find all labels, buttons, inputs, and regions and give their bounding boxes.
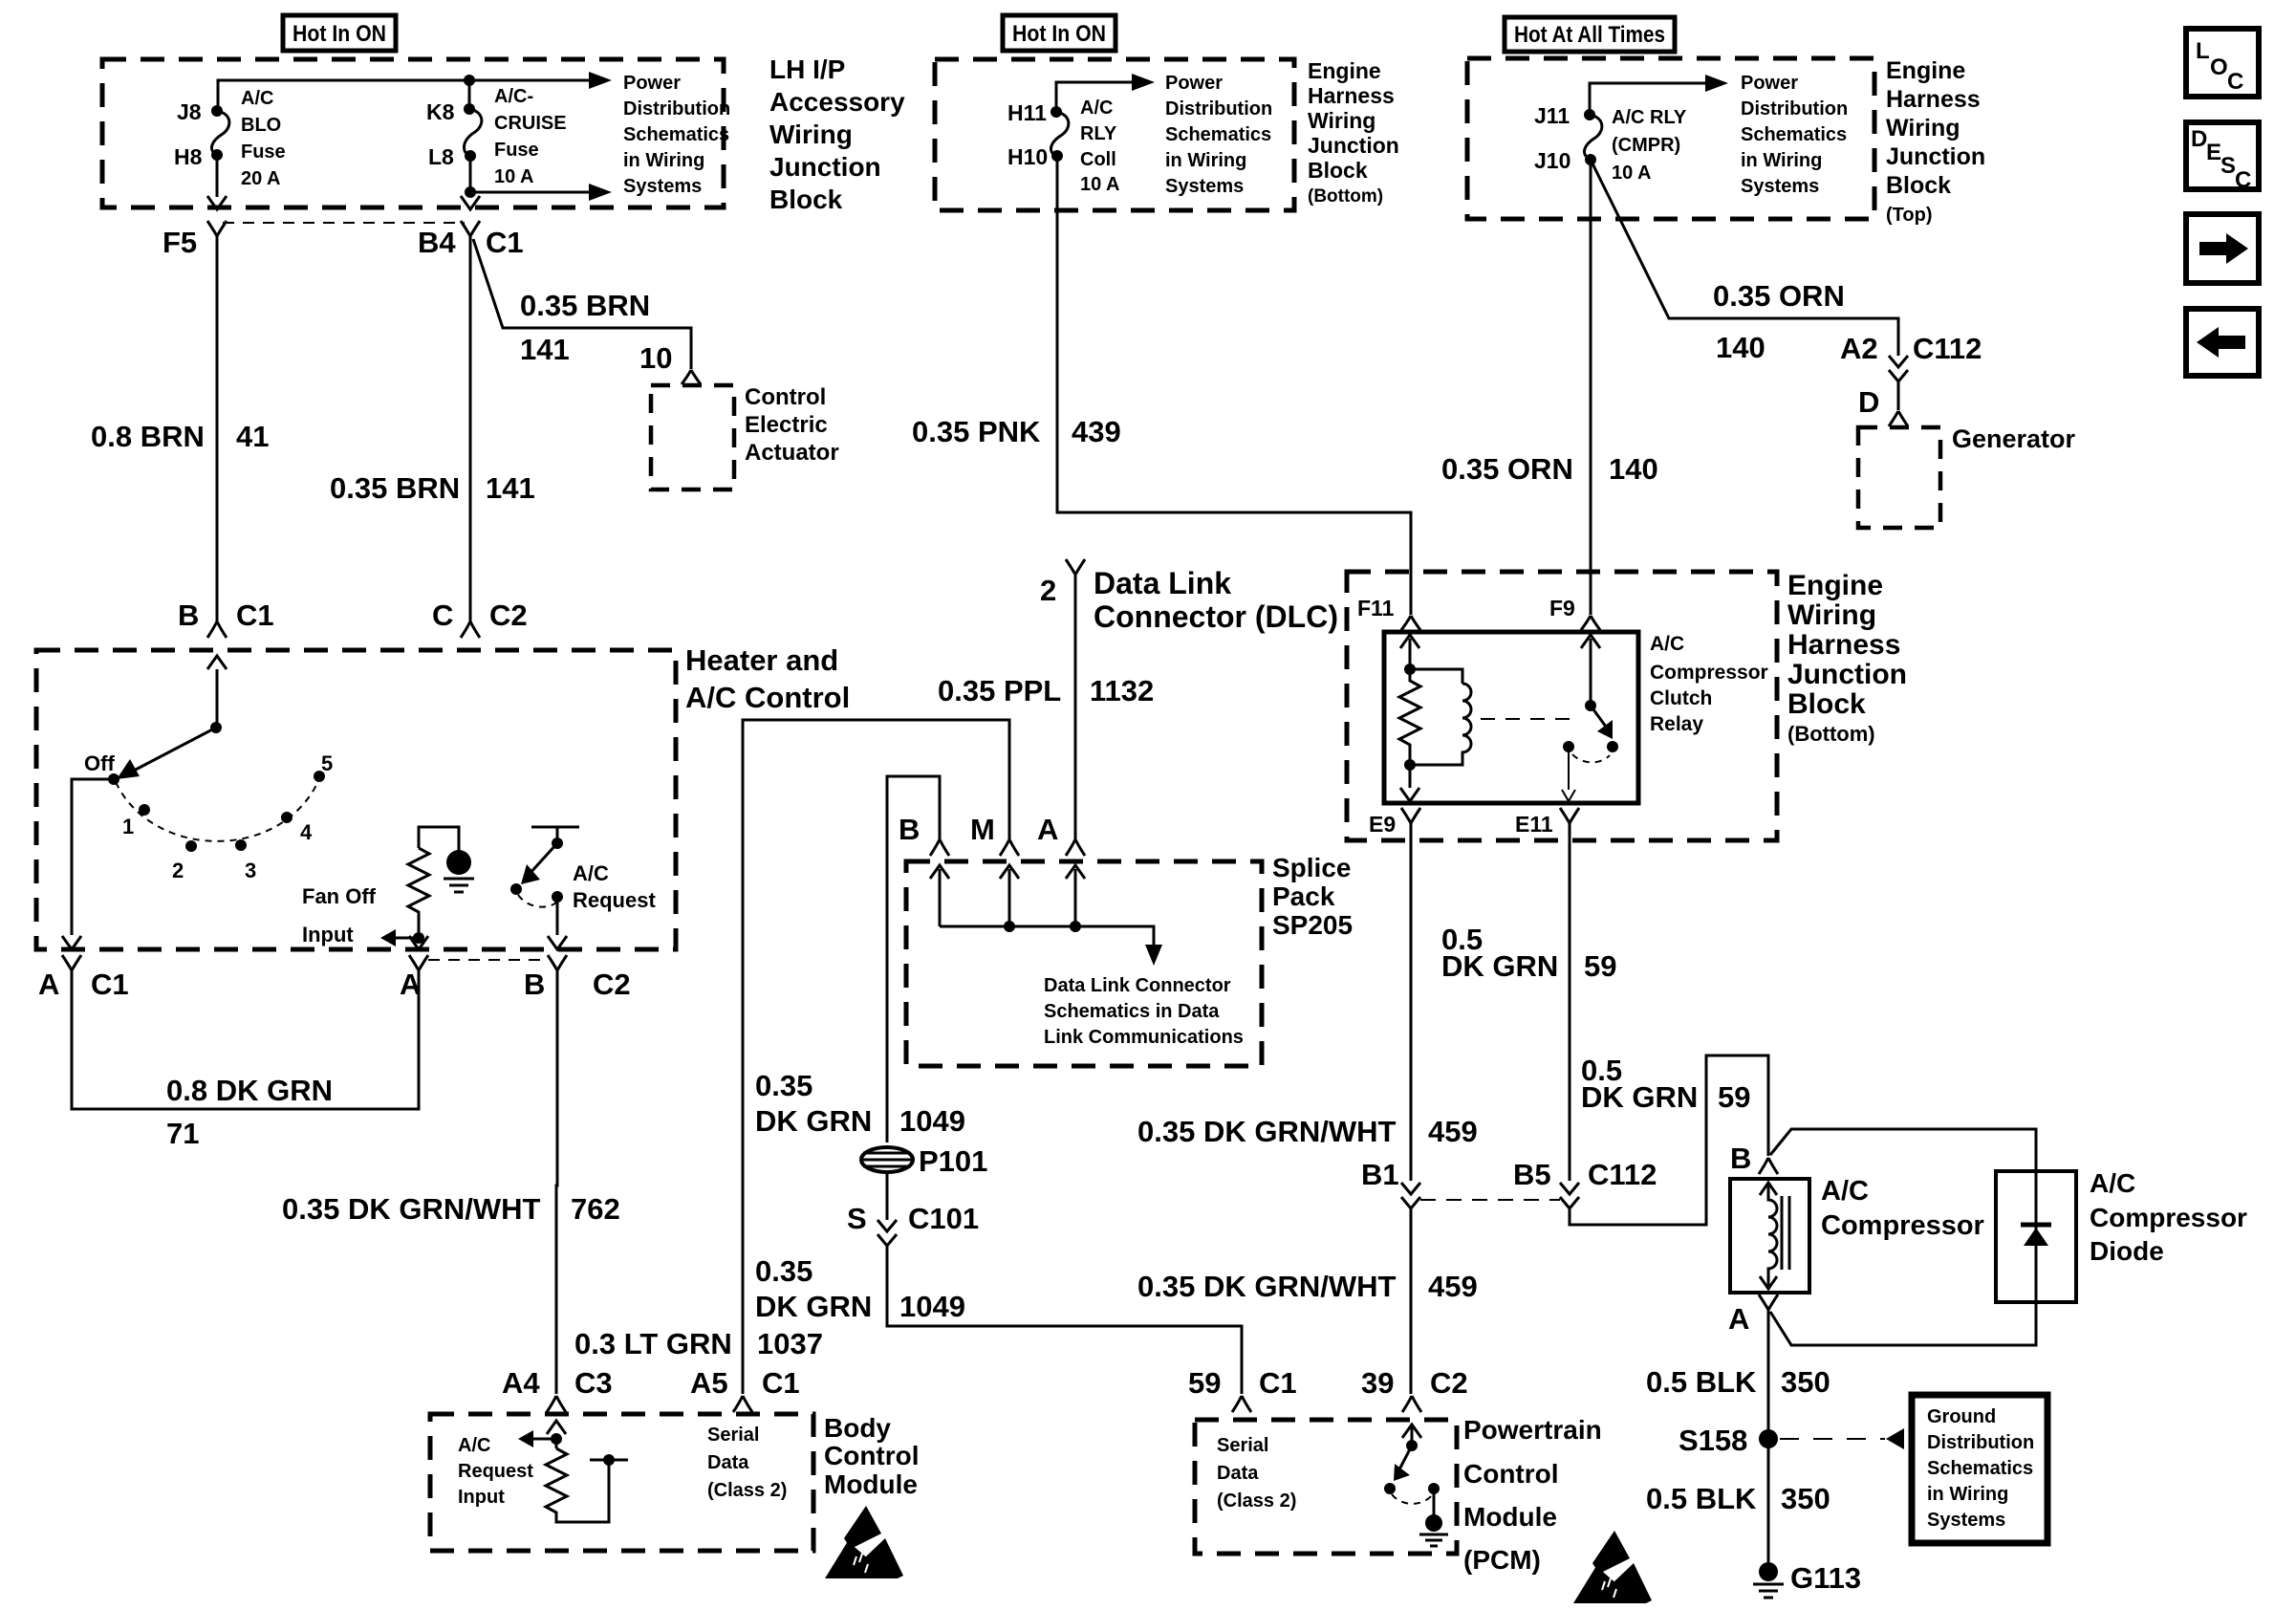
svg-text:E11: E11	[1515, 812, 1553, 837]
diode symbol	[2021, 1225, 2051, 1246]
svg-text:Power: Power	[623, 73, 681, 94]
svg-text:DK GRN: DK GRN	[755, 1104, 872, 1138]
arrow to power distribution (right block)	[1705, 75, 1728, 92]
svg-text:S: S	[847, 1202, 867, 1235]
svg-text:Block: Block	[1308, 158, 1368, 183]
A/C request switch common bar	[531, 827, 579, 841]
svg-text:K8: K8	[426, 99, 455, 124]
Control Electric Actuator dashed box	[651, 385, 734, 490]
svg-text:459: 459	[1428, 1115, 1478, 1148]
svg-text:Distribution: Distribution	[1927, 1432, 2034, 1453]
svg-text:Module: Module	[824, 1469, 918, 1499]
wire from C112 to generator pin D	[1897, 381, 1900, 410]
svg-text:Hot At All Times: Hot At All Times	[1514, 22, 1665, 48]
svg-text:C: C	[2235, 167, 2251, 193]
svg-text:Powertrain: Powertrain	[1463, 1415, 1602, 1445]
internal ground symbol (heater)	[444, 879, 474, 892]
wire 1049 upper link to splice pack B	[887, 776, 940, 1142]
fan switch position node 3	[235, 839, 247, 851]
svg-text:in Wiring: in Wiring	[1927, 1484, 2008, 1505]
svg-text:B4: B4	[418, 226, 456, 259]
node H10	[1051, 150, 1063, 162]
svg-text:Request: Request	[573, 888, 656, 912]
svg-text:A4: A4	[502, 1366, 540, 1400]
connector pin 2 of data link connector	[1066, 559, 1085, 575]
wire 0.5 BLK 350 from compressor A to S158	[1767, 1310, 1770, 1434]
relay coil output to E9	[1409, 765, 1412, 788]
svg-text:Block: Block	[1886, 172, 1951, 199]
svg-text:439: 439	[1072, 415, 1121, 448]
svg-text:Harness: Harness	[1308, 83, 1395, 108]
svg-text:(Class 2): (Class 2)	[1217, 1490, 1296, 1512]
svg-text:0.3 LT GRN: 0.3 LT GRN	[574, 1327, 732, 1360]
wire A/C request output down	[556, 897, 559, 935]
connector 59 C1 above PCM	[1232, 1396, 1251, 1412]
label A/C Request	[573, 861, 656, 912]
svg-text:C1: C1	[236, 598, 274, 632]
svg-text:0.35 ORN: 0.35 ORN	[1713, 279, 1845, 313]
fan off input junction node	[413, 932, 424, 944]
Splice Pack SP205 dashed box	[906, 861, 1262, 1066]
svg-text:Fuse: Fuse	[494, 140, 539, 161]
svg-text:BLO: BLO	[241, 115, 281, 136]
PCM internal ground symbol	[1419, 1534, 1448, 1546]
connector E9	[1401, 808, 1420, 823]
A/C request switch pivot node	[552, 838, 563, 849]
connector 39 C2 above PCM	[1402, 1396, 1421, 1412]
relay coil	[1410, 669, 1471, 765]
svg-text:Link Communications: Link Communications	[1044, 1027, 1244, 1048]
svg-text:A/C RLY: A/C RLY	[1612, 107, 1687, 128]
svg-text:Systems: Systems	[1165, 176, 1244, 197]
component name Control Electric Actuator	[745, 384, 839, 466]
svg-text:141: 141	[520, 333, 570, 366]
svg-text:J10: J10	[1534, 148, 1570, 173]
svg-text:Data Link: Data Link	[1094, 566, 1231, 600]
connector B4	[461, 221, 480, 236]
svg-text:in Wiring: in Wiring	[623, 150, 704, 171]
svg-text:E9: E9	[1369, 812, 1396, 837]
right arrow icon box	[2186, 214, 2259, 283]
Ground Distribution Schematics box	[1912, 1395, 2047, 1543]
wire bus from J8 up and right to power distribution arrow	[218, 80, 591, 111]
splice pack A entry arrow	[1066, 865, 1085, 926]
component name Engine Wiring Harness Junction Block (Bottom)	[1787, 570, 1907, 746]
svg-text:B: B	[178, 598, 199, 632]
svg-text:(PCM): (PCM)	[1463, 1545, 1541, 1575]
svg-text:A/C: A/C	[458, 1435, 490, 1456]
svg-text:Serial: Serial	[1217, 1435, 1268, 1456]
splice bus junction node M	[1004, 921, 1015, 932]
svg-text:459: 459	[1428, 1270, 1478, 1303]
svg-text:Junction: Junction	[1308, 133, 1399, 158]
svg-text:Serial: Serial	[707, 1425, 759, 1446]
svg-text:A/C-: A/C-	[494, 86, 533, 107]
svg-text:C1: C1	[91, 968, 129, 1001]
svg-text:M: M	[970, 813, 995, 846]
wire 0.8 DK GRN 71 loop	[72, 970, 419, 1109]
relay coil feed entry arrow (F11)	[1400, 635, 1419, 669]
svg-text:0.5 BLK: 0.5 BLK	[1646, 1365, 1757, 1399]
fan switch position node 2	[185, 840, 197, 852]
A/C request output contact node	[552, 891, 563, 903]
svg-text:H11: H11	[1007, 100, 1047, 125]
arrow to power distribution (bottom)	[589, 184, 612, 201]
component name Body Control Module	[824, 1413, 920, 1499]
relay switch alternate contact node	[1563, 741, 1574, 752]
splice bus junction node A	[1070, 921, 1081, 932]
svg-text:10 A: 10 A	[1080, 174, 1120, 195]
svg-text:A2: A2	[1840, 332, 1878, 365]
arrow down at heater box edge (B)	[548, 936, 567, 949]
svg-text:J11: J11	[1534, 103, 1570, 128]
wire 0.35 BRN 141 branch from B4 to control electric actuator	[473, 239, 691, 369]
svg-text:A/C Control: A/C Control	[685, 681, 850, 714]
relay coil bottom node	[1404, 759, 1416, 771]
ESD symbol for PCM	[1573, 1531, 1652, 1603]
node L8	[465, 150, 476, 162]
PCM contact travel arc (dashed)	[1392, 1494, 1432, 1504]
BCM resistor tap bar	[590, 1459, 628, 1462]
wire 0.35 ORN 140 from J10 down to relay F9	[1590, 160, 1592, 615]
svg-text:0.35: 0.35	[755, 1254, 812, 1288]
svg-text:4: 4	[300, 820, 313, 844]
svg-text:Hot In ON: Hot In ON	[1012, 21, 1106, 47]
svg-text:Wiring: Wiring	[769, 120, 853, 149]
reference arrowhead at ground distribution box	[1886, 1428, 1904, 1449]
svg-text:0.8 BRN: 0.8 BRN	[91, 420, 205, 453]
arrow down at heater box edge (A C1)	[62, 936, 81, 949]
wire 0.5 DK GRN 59 from B5 to compressor B	[1570, 1055, 1768, 1225]
svg-text:H8: H8	[174, 144, 203, 169]
svg-text:LH I/P: LH I/P	[769, 54, 845, 84]
svg-text:Distribution: Distribution	[1165, 98, 1272, 120]
component name Engine Harness Wiring Junction Block (Bottom)	[1308, 58, 1399, 207]
wire 0.35 ORN branch from J10 to generator	[1591, 160, 1898, 356]
internal chassis ground node (heater)	[446, 850, 471, 875]
svg-text:C: C	[432, 598, 453, 632]
svg-text:Splice: Splice	[1272, 853, 1351, 882]
svg-text:DK GRN: DK GRN	[755, 1290, 872, 1323]
dashed link C112 between B1 and B5	[1420, 1199, 1560, 1201]
BCM resistor top tap node	[603, 1454, 615, 1466]
component name Data Link Connector (DLC)	[1094, 566, 1338, 634]
svg-text:(Top): (Top)	[1886, 205, 1933, 226]
svg-text:B: B	[524, 968, 545, 1001]
svg-text:10: 10	[639, 341, 672, 375]
svg-text:Hot In ON: Hot In ON	[292, 21, 386, 47]
LH I/P Accessory Wiring Junction Block dashed box	[102, 59, 724, 207]
component name Heater and A/C Control	[685, 643, 850, 714]
svg-text:Power: Power	[1741, 73, 1798, 94]
splice node S158	[1759, 1429, 1778, 1448]
PCM switch arm	[1399, 1446, 1412, 1469]
fan switch position node 1	[139, 804, 150, 816]
svg-text:O: O	[2210, 54, 2228, 80]
svg-text:0.8 DK GRN: 0.8 DK GRN	[166, 1074, 333, 1107]
svg-text:0.35 PPL: 0.35 PPL	[938, 674, 1061, 707]
connector M of splice pack	[1000, 839, 1019, 856]
connector C1 thin dashed line between F5 and B4	[223, 222, 465, 224]
wire 0.5 DK GRN 59 from relay E11 down to B5	[1569, 823, 1571, 1181]
svg-text:Electric: Electric	[745, 412, 828, 438]
svg-text:140: 140	[1609, 452, 1658, 486]
svg-text:Engine: Engine	[1886, 57, 1965, 84]
splice pack B entry arrow	[930, 865, 949, 926]
wire label 0.35 DK GRN (lower)	[755, 1254, 872, 1323]
svg-text:A/C: A/C	[1650, 633, 1684, 655]
connector C (heater control C2)	[461, 602, 480, 638]
node J10	[1585, 154, 1596, 165]
node J11	[1584, 109, 1595, 120]
BCM A/C request input arrow inside box	[547, 1421, 566, 1448]
grommet P101	[860, 1147, 914, 1172]
arrow down at heater box edge (A)	[409, 936, 428, 949]
relay contact travel arc (dashed)	[1572, 754, 1610, 762]
svg-text:DK GRN: DK GRN	[1581, 1080, 1698, 1114]
svg-text:Schematics: Schematics	[623, 124, 729, 145]
svg-text:C2: C2	[489, 598, 528, 632]
svg-text:10 A: 10 A	[1612, 163, 1652, 184]
BCM pull-up resistor	[546, 1448, 609, 1522]
svg-text:C2: C2	[1430, 1366, 1468, 1400]
svg-text:RLY: RLY	[1080, 123, 1117, 144]
fan switch position node 5	[314, 771, 325, 782]
node J8	[211, 105, 223, 117]
connector F9	[1581, 616, 1600, 630]
svg-text:Request: Request	[458, 1461, 533, 1482]
svg-text:Relay: Relay	[1650, 713, 1703, 735]
svg-text:Fuse: Fuse	[241, 141, 286, 163]
wire 0.5 BLK 350 from S158 to G113	[1767, 1444, 1770, 1565]
svg-text:Engine: Engine	[1787, 570, 1883, 601]
svg-text:0.35 BRN: 0.35 BRN	[330, 471, 460, 505]
wire 0.35 PPL from heater A/C control to splice pack M	[743, 720, 1009, 1394]
relay output wire to E11	[1568, 747, 1570, 790]
component name A/C Compressor	[1821, 1176, 1984, 1241]
svg-text:Input: Input	[302, 923, 354, 946]
svg-text:Junction: Junction	[1886, 143, 1985, 170]
fuse A/C RLY (CMPR) 10A	[1584, 115, 1601, 159]
splice pack M entry arrow	[1000, 865, 1019, 926]
wire 0.35 PPL 1132 from DLC down to splice pack A	[1074, 575, 1077, 839]
svg-text:Harness: Harness	[1787, 629, 1900, 661]
wire 459 from relay E9 down to PCM 39/C2	[1410, 823, 1413, 1394]
svg-text:0.35 BRN: 0.35 BRN	[520, 289, 650, 322]
svg-text:Distribution: Distribution	[1741, 98, 1848, 120]
Engine Harness Wiring Junction Block (Bottom) dashed box	[935, 59, 1294, 210]
svg-text:Power: Power	[1165, 73, 1223, 94]
Powertrain Control Module dashed box	[1195, 1420, 1457, 1554]
fan switch Off contact node	[108, 773, 119, 785]
svg-text:Wiring: Wiring	[1308, 108, 1375, 133]
junction node on bus	[464, 75, 475, 86]
in-line connector S C101	[877, 1220, 897, 1246]
node H8	[211, 149, 223, 161]
svg-text:C: C	[2227, 69, 2243, 95]
connector A5 C1 above BCM	[733, 1396, 752, 1412]
svg-text:1049: 1049	[899, 1290, 965, 1323]
svg-text:in Wiring: in Wiring	[1165, 150, 1246, 171]
diode internal wire	[2035, 1171, 2038, 1302]
arrow to power distribution (top)	[589, 72, 612, 89]
svg-text:Body: Body	[824, 1413, 891, 1443]
svg-text:Distribution: Distribution	[623, 98, 730, 120]
svg-text:140: 140	[1716, 331, 1765, 364]
junction node below L8	[465, 186, 476, 198]
compressor clutch coil exit arrow	[1760, 1276, 1777, 1289]
A/C Compressor Diode box	[1996, 1171, 2076, 1302]
svg-text:A/C: A/C	[241, 88, 273, 109]
fan off resistor branch top wire to internal ground	[419, 827, 459, 852]
connector A of A/C compressor	[1759, 1295, 1778, 1310]
relay output arrow down	[1562, 790, 1575, 801]
svg-text:Control: Control	[745, 384, 826, 410]
svg-text:DK GRN: DK GRN	[1441, 949, 1558, 983]
svg-text:F5: F5	[162, 226, 197, 259]
fuse A/C BLO 20A	[211, 111, 228, 155]
component name Splice Pack SP205	[1272, 853, 1353, 940]
svg-text:Coll: Coll	[1080, 149, 1116, 170]
svg-text:0.35 PNK: 0.35 PNK	[912, 415, 1041, 448]
svg-text:C1: C1	[486, 226, 524, 259]
svg-text:Compressor: Compressor	[1821, 1210, 1984, 1241]
fuse label A/C-CRUISE Fuse 10 A	[494, 86, 567, 187]
svg-text:P101: P101	[919, 1144, 987, 1178]
PCM switch open contact node	[1384, 1483, 1396, 1494]
splice reference arrowhead down	[1145, 945, 1162, 966]
svg-text:Wiring: Wiring	[1787, 599, 1876, 631]
svg-text:Wiring: Wiring	[1886, 115, 1960, 141]
svg-text:Input: Input	[458, 1487, 505, 1508]
Engine Wiring Harness Junction Block (Bottom) dashed box	[1347, 572, 1777, 840]
PCM serial data entry arrow	[1402, 1425, 1421, 1446]
svg-text:Junction: Junction	[1787, 659, 1907, 690]
svg-text:Clutch: Clutch	[1650, 687, 1712, 709]
arrow to power distribution (middle block)	[1132, 74, 1155, 91]
fan switch position arc (dashed)	[116, 779, 319, 841]
connector line between heater bottom pins A and B	[428, 959, 548, 961]
label box Hot At All Times	[1505, 17, 1675, 52]
wire to PCM internal ground	[1433, 1489, 1436, 1515]
connector A4 C3 above BCM	[547, 1396, 566, 1412]
fan switch arm to Off	[132, 728, 216, 772]
svg-text:Harness: Harness	[1886, 86, 1981, 113]
wire 0.35 PNK 439 from H10 to relay F11	[1057, 156, 1411, 615]
svg-text:0.35 ORN: 0.35 ORN	[1441, 452, 1573, 486]
svg-text:L8: L8	[428, 144, 454, 169]
in-line connector A2 C112	[1889, 356, 1908, 381]
Body Control Module dashed box	[430, 1414, 813, 1551]
fuse A/C RLY Coll 10A	[1051, 112, 1068, 156]
svg-text:41: 41	[236, 420, 269, 453]
svg-text:Schematics: Schematics	[1741, 124, 1847, 145]
svg-text:350: 350	[1781, 1365, 1830, 1399]
node H11	[1051, 106, 1062, 118]
svg-text:C1: C1	[762, 1366, 800, 1400]
svg-text:H10: H10	[1007, 144, 1048, 169]
connector B C2 below heater	[548, 955, 567, 970]
DESC icon box	[2186, 122, 2259, 193]
svg-text:A/C: A/C	[1821, 1176, 1869, 1207]
connector F5	[207, 221, 227, 236]
connector pin 10 of control electric actuator	[682, 370, 701, 384]
wire from compressor B to diode (top)	[1770, 1129, 2036, 1171]
dashed reference line from S158	[1780, 1438, 1885, 1440]
svg-text:C2: C2	[593, 968, 631, 1001]
svg-text:762: 762	[571, 1192, 620, 1226]
arrow down at box edge (F5)	[207, 196, 227, 209]
compressor clutch plates	[1782, 1196, 1789, 1270]
connector pin D of generator	[1889, 411, 1908, 426]
BCM A/C request arrow line	[531, 1438, 556, 1441]
component name A/C Compressor Clutch Relay	[1650, 633, 1768, 735]
svg-text:0.35 DK GRN/WHT: 0.35 DK GRN/WHT	[1137, 1115, 1396, 1148]
LOC icon box	[2186, 29, 2259, 97]
connector B of splice pack	[930, 839, 949, 856]
svg-text:C112: C112	[1913, 332, 1982, 365]
ground G113	[1753, 1562, 1784, 1598]
svg-text:0.5 BLK: 0.5 BLK	[1646, 1482, 1757, 1515]
wire 1049 between P101 and C101	[886, 1173, 889, 1220]
A/C request switch arm	[529, 843, 557, 875]
svg-text:C3: C3	[574, 1366, 613, 1400]
svg-text:1037: 1037	[757, 1327, 823, 1360]
reference text Power Distribution Schematics in Wiring Systems (right)	[1741, 73, 1848, 197]
svg-text:A: A	[1037, 813, 1058, 846]
wire bus to K8	[468, 80, 471, 108]
svg-text:C112: C112	[1588, 1158, 1657, 1191]
relay switch output contact node	[1607, 741, 1618, 752]
wire from Off contact to heater pin A/C1	[72, 779, 114, 935]
svg-text:Data: Data	[1217, 1463, 1259, 1484]
connector E11	[1560, 808, 1579, 823]
relay switch common node	[1585, 700, 1596, 711]
PCM internal ground node	[1425, 1514, 1442, 1532]
svg-text:Ground: Ground	[1927, 1406, 1996, 1427]
label Fan Off Input	[302, 884, 377, 946]
svg-text:F9: F9	[1549, 596, 1575, 620]
svg-text:141: 141	[486, 471, 535, 505]
svg-text:Generator: Generator	[1952, 424, 2076, 453]
label A/C Request Input	[458, 1435, 533, 1508]
relay coil top node	[1404, 664, 1416, 675]
svg-text:Schematics: Schematics	[1165, 124, 1271, 145]
fuse label A/C RLY Coll 10 A	[1080, 98, 1120, 195]
svg-text:Connector (DLC): Connector (DLC)	[1094, 599, 1338, 634]
svg-text:Control: Control	[824, 1441, 920, 1470]
arrow down at box edge (B4)	[461, 196, 480, 209]
wire from compressor A to diode (bottom)	[1770, 1302, 2036, 1345]
svg-text:Fan Off: Fan Off	[302, 884, 377, 908]
PCM switch ground contact node	[1428, 1483, 1440, 1494]
Generator dashed box	[1858, 427, 1940, 528]
svg-text:Block: Block	[1787, 688, 1866, 720]
svg-text:Diode: Diode	[2090, 1236, 2164, 1266]
fuse A/C-CRUISE 10A	[464, 109, 481, 156]
component name Engine Harness Wiring Junction Block (Top)	[1886, 57, 1985, 226]
wire below L8 with branch to power distribution	[470, 156, 591, 197]
relay coil output arrow down	[1400, 788, 1419, 801]
svg-text:Junction: Junction	[769, 152, 881, 182]
label box Hot In ON (left)	[283, 15, 396, 51]
wire 1049 from C101 to PCM 59/C1	[887, 1246, 1242, 1394]
BCM A/C request arrowhead	[518, 1430, 533, 1447]
A/C request contact travel arc (dashed)	[518, 895, 556, 907]
wire 0.8 BRN 41 from F5 down to heater control B/C1	[216, 236, 219, 602]
fuse label A/C RLY (CMPR) 10 A	[1612, 107, 1687, 184]
svg-text:1132: 1132	[1090, 674, 1154, 707]
